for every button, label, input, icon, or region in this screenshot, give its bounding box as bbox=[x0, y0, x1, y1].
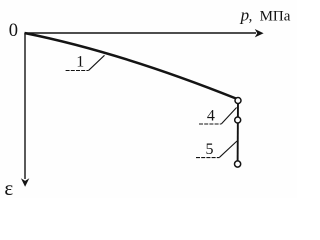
node: point circle middle bbox=[235, 117, 241, 123]
label 1 leader bbox=[89, 55, 105, 70]
svg-text:ε: ε bbox=[4, 176, 13, 198]
curve 1 bbox=[25, 33, 237, 99]
svg-text:,: , bbox=[249, 9, 253, 25]
p axis (horizontal) bbox=[25, 32, 257, 34]
label 5 underline bbox=[196, 157, 220, 159]
svg-text:МПа: МПа bbox=[260, 9, 291, 25]
svg-text:0: 0 bbox=[9, 21, 18, 41]
label 5 leader bbox=[220, 141, 238, 157]
node: point circle top bbox=[235, 98, 241, 104]
wire: vertical segment through points bbox=[237, 101, 239, 165]
label 1 underline bbox=[66, 70, 89, 72]
svg-text:4: 4 bbox=[207, 107, 215, 124]
node: point circle bottom bbox=[235, 161, 241, 167]
label 4 underline bbox=[199, 123, 222, 125]
label 4 leader bbox=[222, 108, 237, 124]
p axis arrowhead bbox=[255, 29, 264, 37]
epsilon axis (vertical) bbox=[24, 33, 26, 179]
epsilon axis arrowhead bbox=[21, 178, 29, 187]
svg-text:1: 1 bbox=[76, 54, 84, 71]
svg-text:5: 5 bbox=[206, 141, 214, 158]
